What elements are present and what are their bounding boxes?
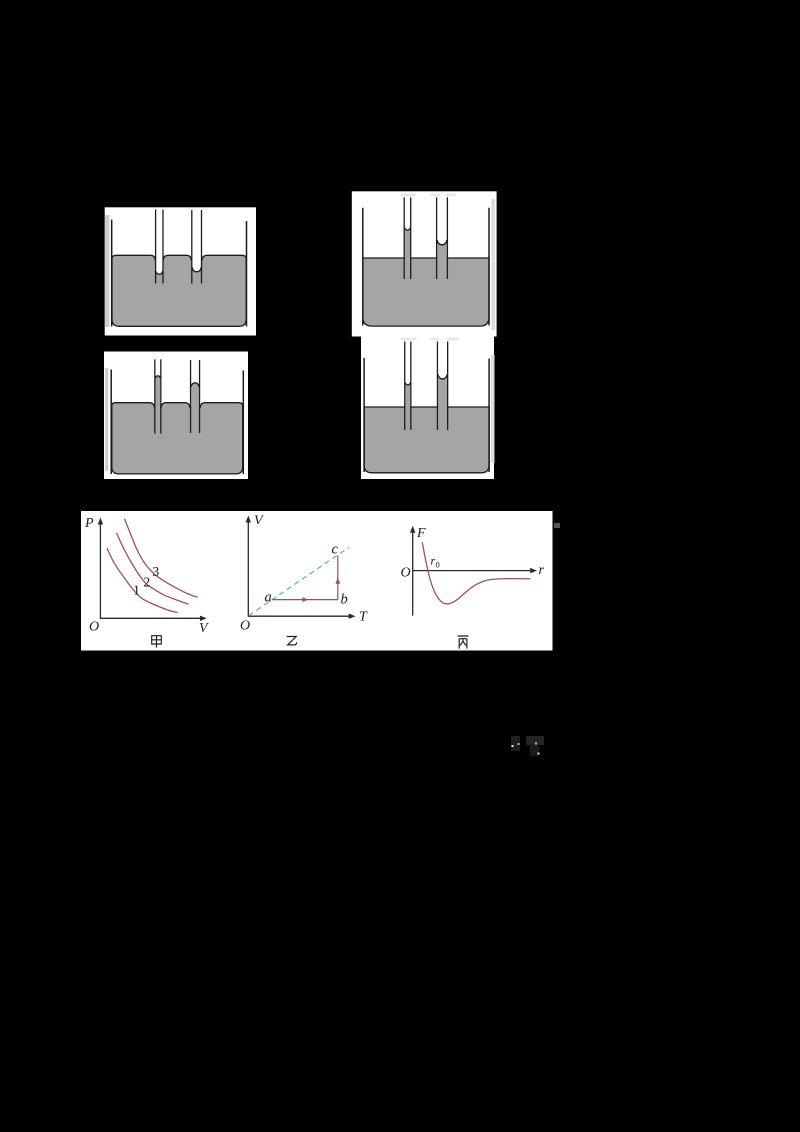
- svg-text:0: 0: [436, 560, 440, 570]
- svg-text:b: b: [341, 592, 348, 608]
- svg-text:r: r: [539, 563, 545, 578]
- svg-text:O: O: [401, 566, 411, 581]
- svg-text:V: V: [199, 621, 209, 636]
- svg-text:c: c: [332, 542, 339, 558]
- svg-text:T: T: [359, 610, 368, 625]
- svg-text:V: V: [254, 514, 264, 529]
- svg-text:2: 2: [143, 575, 150, 590]
- svg-text:3: 3: [152, 565, 159, 580]
- svg-text:1: 1: [133, 584, 140, 599]
- svg-text:P: P: [84, 516, 94, 531]
- svg-text:O: O: [89, 620, 99, 635]
- svg-text:a: a: [265, 590, 272, 606]
- svg-text:O: O: [240, 619, 250, 634]
- svg-text:F: F: [416, 526, 426, 541]
